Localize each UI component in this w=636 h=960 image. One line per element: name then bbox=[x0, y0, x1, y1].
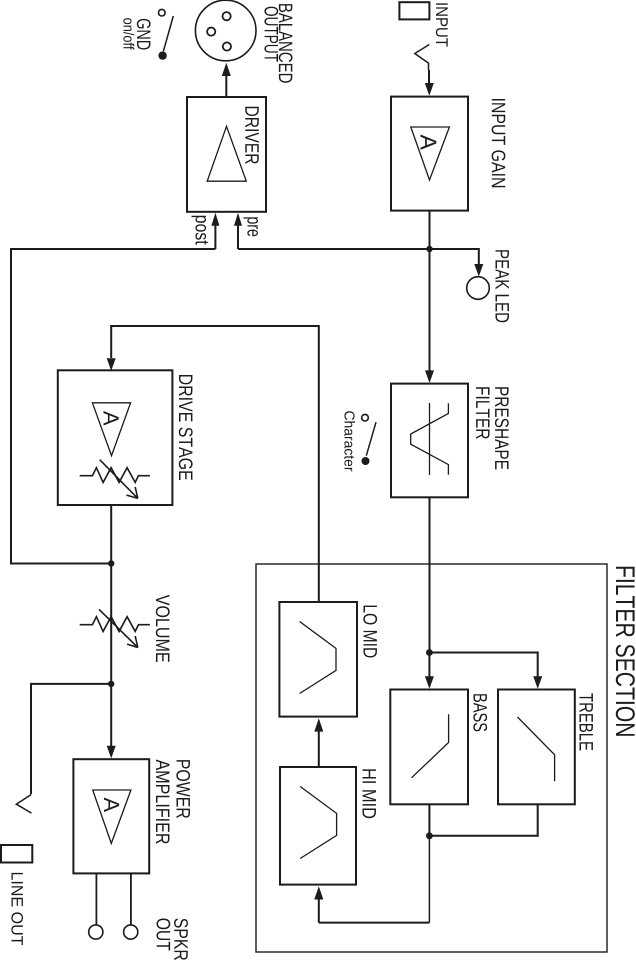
label VOLUME bbox=[156, 595, 170, 662]
node B junction (bass/treble split) bbox=[426, 649, 433, 656]
label LO MID bbox=[363, 606, 377, 658]
wire bottom across to HI MID bbox=[319, 922, 430, 924]
op-amp triangle drive bbox=[92, 403, 130, 456]
wire line out cable squiggle bbox=[16, 795, 31, 814]
XLR pin 3 bbox=[223, 42, 231, 50]
wire input cable squiggle bbox=[415, 45, 430, 71]
potentiometer R1 arrow bbox=[100, 460, 138, 499]
wire post loop left and up bbox=[11, 249, 215, 564]
label OUT (spkr) bbox=[157, 919, 171, 951]
wire node B to treble bbox=[429, 653, 537, 678]
potentiometer R2 VOLUME zigzag bbox=[80, 617, 150, 632]
arrow into XLR bbox=[222, 63, 231, 76]
wire speaker lead 1 bbox=[95, 873, 97, 924]
bass response curve bbox=[412, 714, 449, 778]
wire pre arrow stem bbox=[237, 226, 239, 250]
label FILTER SECTION (title) bbox=[616, 567, 635, 736]
label A of INPUT GAIN bbox=[421, 135, 437, 150]
label PEAK LED bbox=[496, 250, 509, 322]
wire speaker lead 2 bbox=[130, 873, 132, 924]
block U5 HI MID bbox=[280, 767, 356, 885]
block U7 DRIVE STAGE bbox=[58, 370, 173, 505]
label LINE OUT bbox=[11, 873, 23, 945]
wire DRIVER to XLR bbox=[225, 76, 227, 97]
arrow into HI MID bbox=[314, 886, 323, 899]
block U9 POWER AMPLIFIER bbox=[73, 759, 149, 873]
speaker jack 1 bbox=[89, 925, 103, 939]
label FILTER (of preshape) bbox=[476, 387, 489, 439]
label BALANCED bbox=[279, 4, 293, 83]
potentiometer R1 drive zigzag bbox=[80, 468, 150, 483]
wire HI MID to LO MID bbox=[318, 732, 320, 768]
switch S1 lever bbox=[163, 16, 173, 51]
label POWER bbox=[176, 760, 190, 818]
hi mid response curve bbox=[300, 787, 336, 859]
block U6 LO MID bbox=[279, 602, 357, 717]
arrow into TREBLE bbox=[533, 676, 542, 689]
wire node C down bbox=[428, 836, 430, 923]
arrow pre into DRIVER bbox=[234, 213, 242, 226]
node E junction bbox=[108, 681, 114, 687]
wire INPUT GAIN out to node A bbox=[429, 211, 431, 249]
label Character bbox=[344, 411, 355, 471]
label AMPLIFIER bbox=[156, 760, 169, 844]
label pre bbox=[243, 217, 258, 236]
wire post arrow stem bbox=[214, 226, 216, 250]
speaker jack 2 bbox=[124, 925, 138, 939]
wire pre from node A line bbox=[238, 248, 430, 250]
wire BASS out bbox=[428, 804, 430, 836]
op-amp triangle U1 bbox=[411, 127, 450, 180]
arrow into PRESHAPE FILTER bbox=[425, 370, 434, 383]
node D junction bbox=[108, 560, 114, 566]
filter section outer box bbox=[256, 564, 607, 952]
wire DRIVE STAGE out bbox=[110, 505, 112, 564]
lo mid response curve bbox=[300, 622, 336, 694]
power amp triangle bbox=[93, 790, 131, 843]
label DRIVER bbox=[245, 107, 258, 164]
wire input to INPUT GAIN bbox=[428, 70, 430, 84]
wire node D through VOLUME bbox=[110, 564, 112, 684]
XLR pin 1 bbox=[223, 12, 231, 20]
treble response curve bbox=[518, 717, 555, 781]
label TREBLE bbox=[580, 693, 593, 750]
wire TREBLE out bbox=[432, 804, 538, 836]
label DRIVE STAGE bbox=[179, 375, 193, 480]
wire node E to POWER AMPLIFIER bbox=[110, 684, 112, 746]
LED D1 PEAK LED bbox=[467, 277, 490, 300]
wire node E to line out bbox=[31, 684, 111, 794]
block U3 BASS bbox=[390, 690, 468, 805]
label A of DRIVE STAGE bbox=[104, 411, 119, 426]
block U4 TREBLE bbox=[498, 690, 575, 805]
label post bbox=[192, 216, 209, 245]
block U2 PRESHAPE FILTER bbox=[391, 384, 468, 498]
switch S1 GND on/off: open circle bbox=[159, 9, 166, 16]
label INPUT GAIN bbox=[492, 99, 506, 187]
block U1 INPUT GAIN bbox=[391, 97, 468, 211]
label SPKR bbox=[174, 919, 188, 960]
node A junction bbox=[426, 246, 432, 252]
driver triangle bbox=[207, 126, 246, 181]
block U8 DRIVER bbox=[187, 97, 266, 212]
switch S2 pole dot bbox=[362, 457, 370, 465]
line out jack J3 bbox=[1, 845, 32, 863]
input jack J1 (INPUT) bbox=[399, 2, 429, 19]
XLR pin 2 bbox=[207, 28, 215, 36]
label on/off bbox=[123, 18, 134, 49]
label PRESHAPE bbox=[495, 387, 509, 469]
arrow into BASS bbox=[425, 676, 434, 689]
label OUTPUT (balanced) bbox=[264, 7, 278, 62]
arrow post into DRIVER bbox=[211, 213, 219, 226]
arrow into POWER AMPLIFIER bbox=[107, 746, 116, 759]
potentiometer R2 arrow bbox=[99, 609, 138, 647]
switch S2 Character: open circle bbox=[362, 414, 369, 421]
label HI MID bbox=[363, 769, 376, 818]
arrow into peak LED bbox=[474, 264, 483, 277]
wire node A down to PRESHAPE FILTER bbox=[429, 249, 431, 371]
wire PRESHAPE out down into filter section bbox=[429, 497, 431, 652]
wire up into HI MID bbox=[318, 899, 320, 923]
node C junction (bass+treble) bbox=[426, 832, 433, 839]
preshape response curve bbox=[411, 403, 449, 475]
wire node B to bass bbox=[428, 653, 430, 678]
label A of POWER AMPLIFIER bbox=[104, 797, 119, 812]
wire node A to peak led corner bbox=[430, 249, 479, 265]
arrow into LO MID bbox=[314, 718, 323, 731]
XLR connector J2 BALANCED OUTPUT bbox=[195, 0, 256, 61]
label BASS bbox=[473, 694, 487, 731]
label GND bbox=[137, 19, 151, 50]
switch S2 lever bbox=[366, 422, 376, 456]
switch S1 pole dot bbox=[158, 51, 166, 59]
arrow into DRIVE STAGE bbox=[107, 358, 116, 371]
arrow into INPUT GAIN bbox=[425, 83, 434, 96]
preshape curve axis bbox=[429, 403, 431, 475]
label INPUT bbox=[436, 3, 448, 46]
wire LO MID out up and across to DRIVE STAGE bbox=[111, 326, 319, 602]
